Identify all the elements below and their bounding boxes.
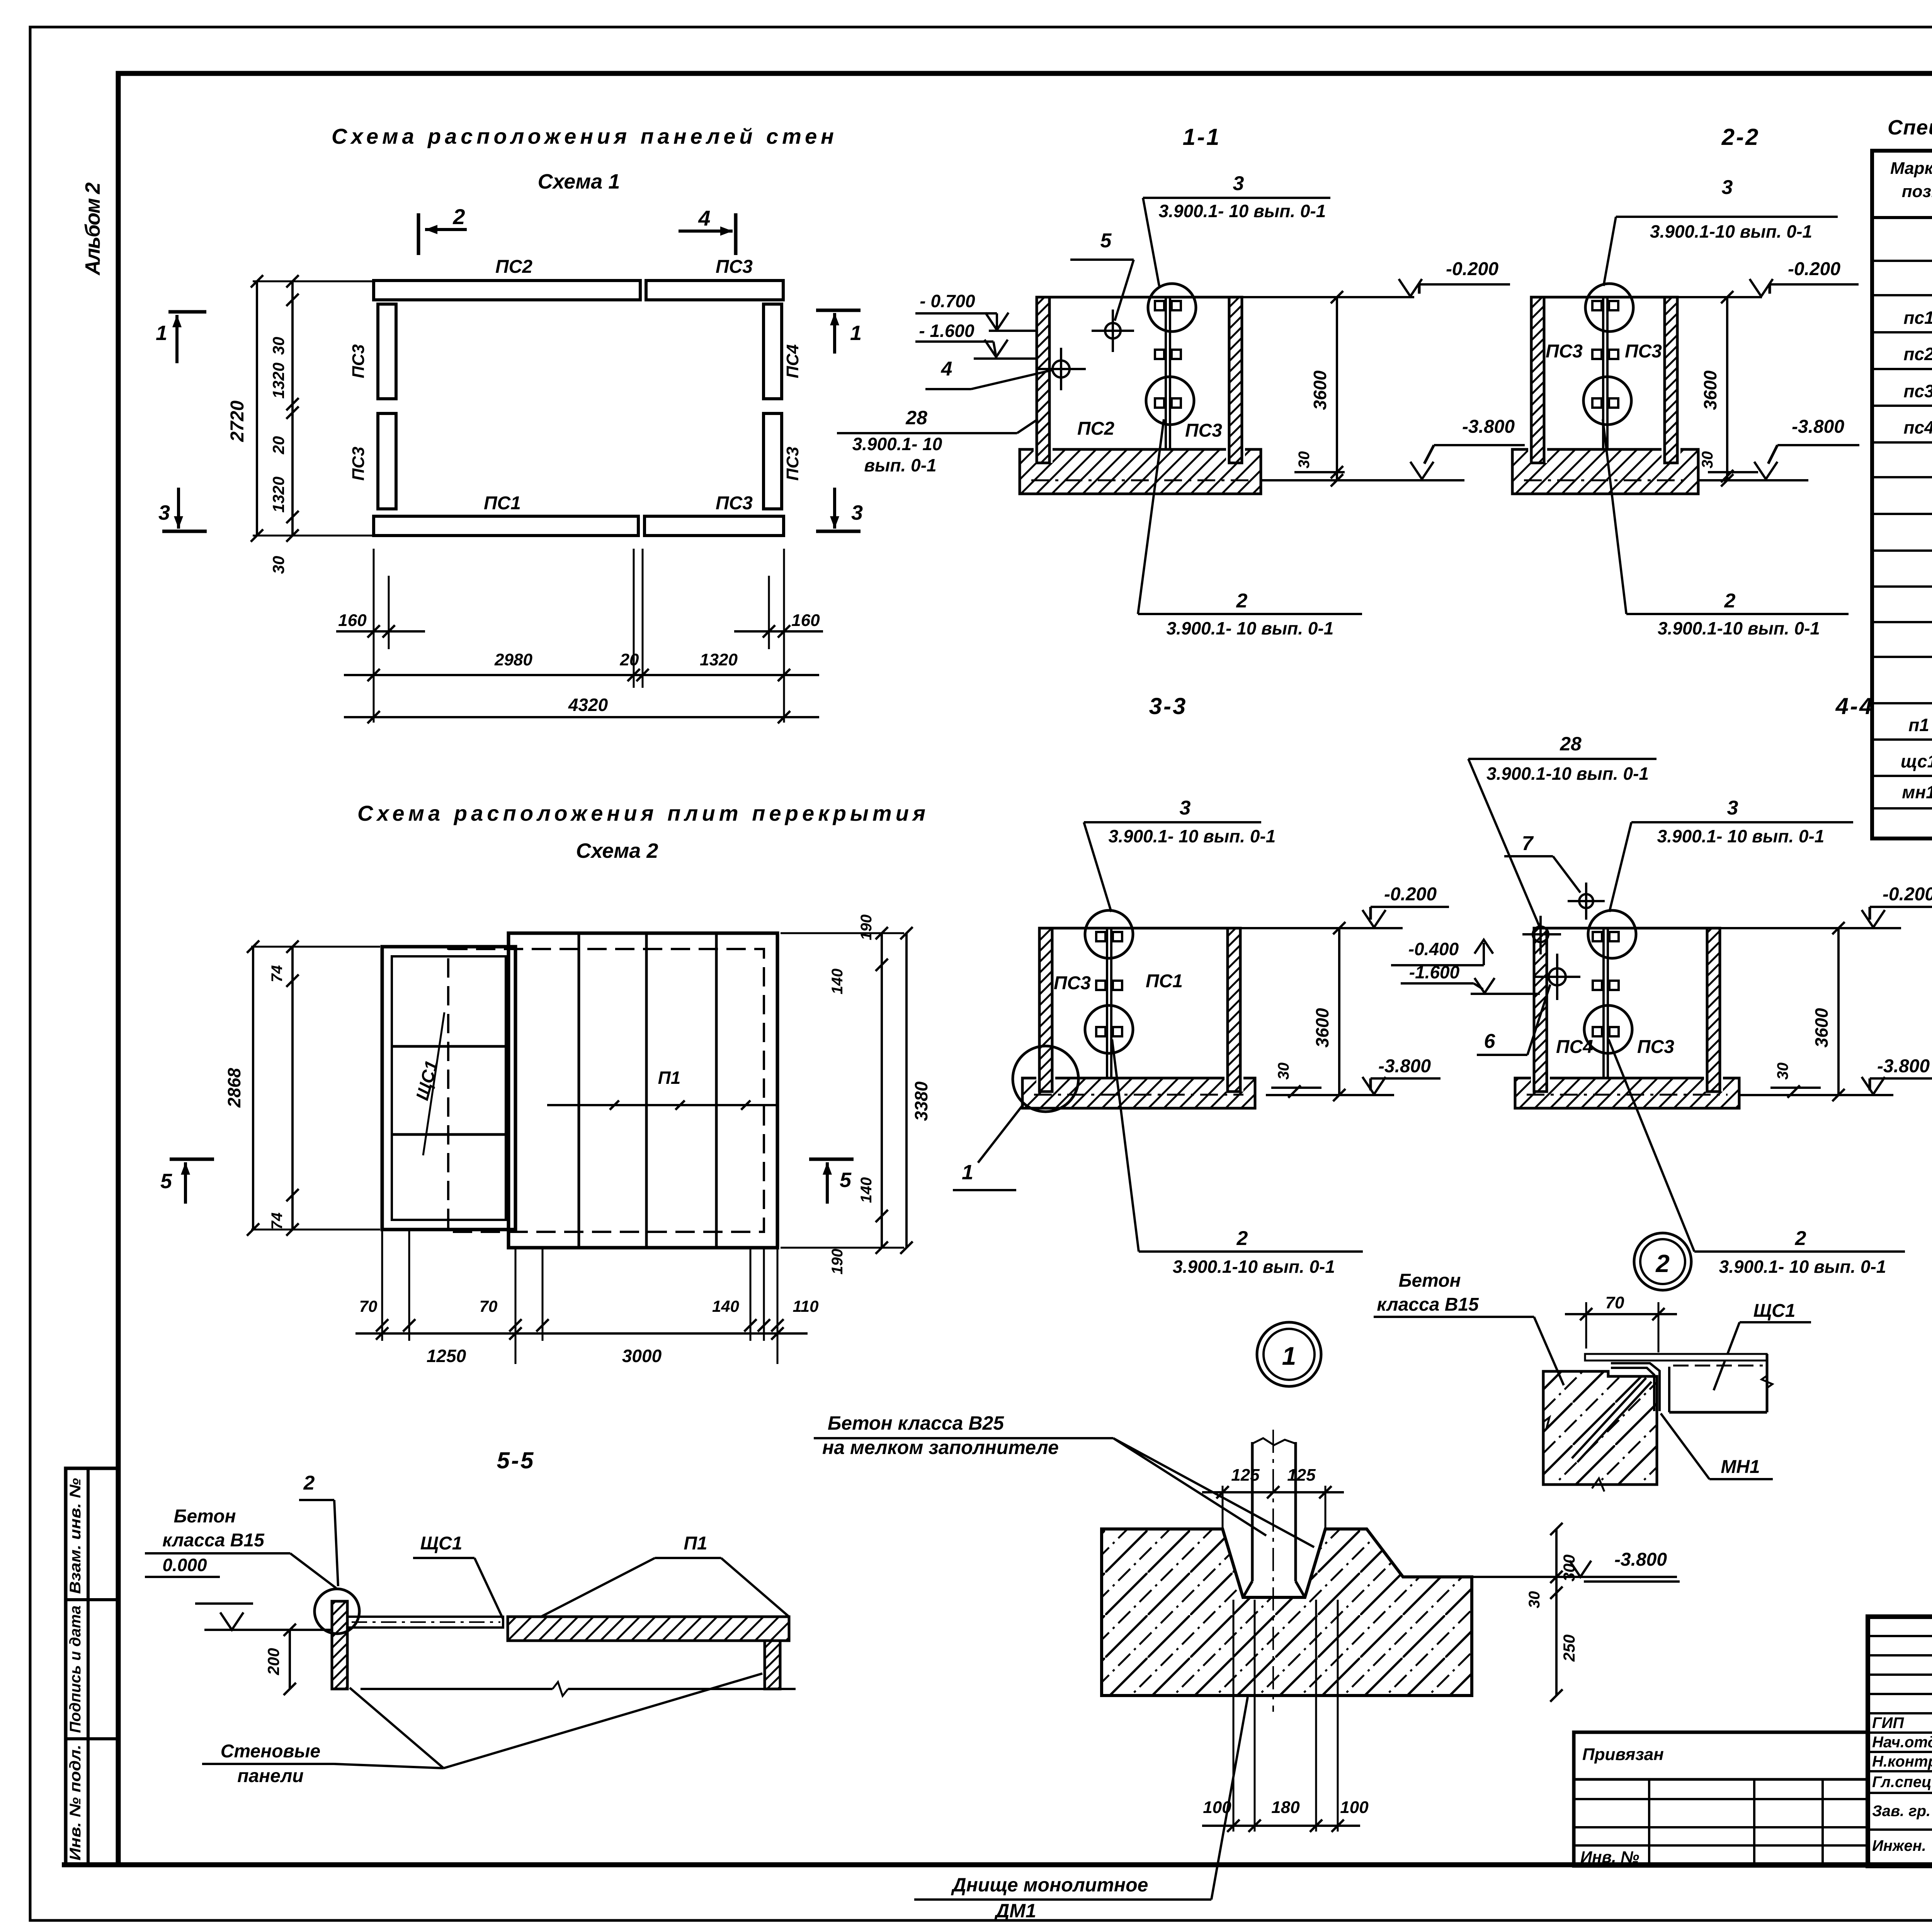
svg-text:ПС3: ПС3 [783, 447, 802, 481]
title block left rows [1868, 1635, 1932, 1637]
svg-text:мн1: мн1 [1902, 782, 1932, 802]
5-5 plate ЩС1 [347, 1617, 503, 1628]
svg-text:4-4: 4-4 [1835, 693, 1874, 719]
svg-text:3: 3 [1722, 176, 1733, 199]
svg-text:5: 5 [840, 1168, 852, 1192]
schema2 plate field П1 [509, 933, 777, 1248]
section 3-3 dim 30 [1271, 1087, 1321, 1089]
panel ПС3 top right [646, 281, 783, 300]
section 4-4 left wall [1531, 928, 1550, 1092]
svg-text:Схема 1: Схема 1 [538, 170, 620, 193]
svg-text:20: 20 [620, 650, 639, 669]
svg-text:Днище монолитное: Днище монолитное [951, 1874, 1148, 1896]
section 2-2 joint plates [1592, 301, 1602, 310]
schema2 dim left 74 chain [291, 947, 294, 1230]
section 2-2 level -0.200 [1677, 296, 1762, 298]
section 3-3 floor slab [1022, 1078, 1255, 1108]
svg-text:-3.800: -3.800 [1462, 417, 1515, 437]
section 3-3 top edge line [1039, 927, 1240, 930]
svg-text:30: 30 [1296, 451, 1313, 469]
detail 1 pit edges hatch cover [1243, 1596, 1305, 1599]
plan bottom dim 2980-20-1320 [633, 549, 635, 688]
section 3-3 detail circle 1 big [1013, 1046, 1078, 1112]
svg-text:3.900.1- 10 вып. 0-1: 3.900.1- 10 вып. 0-1 [1159, 201, 1326, 221]
section 3-3 slab interior line [1034, 1094, 1243, 1096]
svg-text:ПС3: ПС3 [349, 344, 368, 378]
plan left dim 2720 [253, 281, 372, 282]
5-5 wall left [332, 1601, 347, 1689]
panel ПС2 top [374, 281, 640, 300]
5-5 floor line [204, 1629, 332, 1631]
panel ПС4 right upper [764, 304, 782, 399]
svg-text:Подпись и дата: Подпись и дата [67, 1605, 84, 1733]
svg-text:7: 7 [1522, 832, 1534, 855]
svg-text:1: 1 [962, 1161, 973, 1184]
section 2-2 top edge line [1531, 296, 1677, 299]
section 4-4 crosshair joint top [1579, 894, 1593, 908]
section 2-2 dim 3600 [1726, 297, 1728, 480]
schema2 bottom dims 70 70 140 110 [381, 1230, 383, 1341]
svg-text:- 0.700: - 0.700 [920, 291, 975, 311]
svg-text:30: 30 [1275, 1063, 1292, 1080]
svg-text:2980: 2980 [494, 650, 532, 669]
svg-text:180: 180 [1271, 1798, 1300, 1817]
section mark 1 right [816, 309, 861, 312]
section 3-3 detail circle upper [1085, 910, 1133, 958]
svg-text:2: 2 [1724, 590, 1736, 612]
schema2 plate joints [578, 933, 580, 1248]
svg-text:-3.800: -3.800 [1378, 1056, 1431, 1077]
svg-text:ПС3: ПС3 [1185, 420, 1222, 441]
svg-text:Нач.отд.: Нач.отд. [1872, 1734, 1932, 1751]
section 2-2 level -3.800 [1698, 479, 1808, 481]
section 1-1 level -0.200 [1242, 296, 1414, 298]
svg-text:ПС4: ПС4 [783, 344, 802, 378]
section 1-1 level -3.800 [1261, 479, 1464, 481]
section 2-2 dim 30 [1708, 471, 1758, 473]
svg-text:-0.200: -0.200 [1384, 884, 1437, 905]
panel ПС3 left lower [378, 413, 396, 509]
svg-text:3: 3 [158, 501, 170, 524]
left margin stamp box [66, 1468, 118, 1865]
svg-text:2-2: 2-2 [1721, 124, 1760, 150]
svg-text:3.900.1-10 вып. 0-1: 3.900.1-10 вып. 0-1 [1650, 221, 1812, 241]
section 4-4 level -0.200 [1720, 927, 1901, 929]
section 2-2 left wall [1528, 297, 1547, 463]
detail bubble 1 [1257, 1322, 1321, 1386]
panel ПС3 bottom right [645, 516, 784, 536]
svg-text:ПС3: ПС3 [1054, 973, 1091, 993]
svg-text:3600: 3600 [1700, 370, 1720, 410]
section mark 1 left [168, 310, 206, 314]
detail 1 dim 125 125 [1222, 1486, 1224, 1531]
section mark 3 right [816, 530, 861, 533]
svg-text:250: 250 [1560, 1634, 1578, 1662]
section mark 4 top [734, 213, 738, 255]
svg-text:пс4: пс4 [1903, 417, 1932, 437]
spec table header row line [1872, 216, 1932, 219]
section 4-4 top edge line [1534, 927, 1720, 930]
svg-text:3000: 3000 [622, 1346, 662, 1366]
svg-text:-3.800: -3.800 [1792, 417, 1844, 437]
section 3-3 right wall [1225, 928, 1243, 1092]
section 4-4 level -3.800 [1739, 1094, 1893, 1096]
svg-text:3.900.1-10 вып. 0-1: 3.900.1-10 вып. 0-1 [1486, 764, 1649, 784]
plan bottom dim 160 left [373, 549, 375, 723]
svg-text:П1: П1 [658, 1068, 681, 1088]
detail 2 panel frame box [1668, 1367, 1670, 1412]
svg-text:Инв. №: Инв. № [1580, 1848, 1639, 1866]
detail 1 pit pedestal [1251, 1442, 1254, 1581]
detail 2 anchor bar [1577, 1382, 1651, 1462]
svg-text:1320: 1320 [269, 476, 287, 512]
svg-text:2: 2 [1236, 590, 1248, 612]
section 1-1 detail circle lower [1146, 377, 1194, 425]
svg-text:- 1.600: - 1.600 [919, 321, 975, 341]
section 4-4 dim 30 [1770, 1087, 1821, 1089]
svg-text:Н.контр.: Н.контр. [1872, 1753, 1932, 1770]
svg-text:ПС2: ПС2 [1077, 418, 1114, 439]
schema2 ЩС1 dividers [392, 1045, 506, 1048]
svg-text:5-5: 5-5 [497, 1447, 535, 1473]
plan left dim chain 30-1320-20-1320-30 [291, 281, 294, 536]
detail 1 right dims 30 300 250 [1555, 1529, 1558, 1696]
section 2-2 panel joint [1602, 297, 1604, 449]
schema2 dim right chain 190-140 [881, 933, 883, 1248]
svg-text:Бетон класса В25: Бетон класса В25 [828, 1412, 1004, 1434]
detail 1 pedestal centerline [1272, 1430, 1274, 1712]
svg-text:3600: 3600 [1310, 370, 1330, 410]
svg-text:1-1: 1-1 [1183, 124, 1221, 150]
svg-text:5: 5 [160, 1170, 172, 1193]
section 4-4 detail circle upper [1588, 910, 1636, 958]
detail 1 dim 100 180 100 [1233, 1600, 1235, 1832]
section 1-1 dim 30 [1294, 471, 1345, 473]
svg-text:3.900.1- 10 вып. 0-1: 3.900.1- 10 вып. 0-1 [1719, 1257, 1886, 1277]
svg-text:класса В15: класса В15 [162, 1530, 265, 1551]
svg-text:125: 125 [1231, 1466, 1260, 1485]
svg-text:-3.800: -3.800 [1877, 1056, 1930, 1077]
svg-text:пс3: пс3 [1903, 381, 1932, 401]
svg-text:Марка,: Марка, [1890, 159, 1932, 178]
svg-text:пс2: пс2 [1903, 344, 1932, 364]
svg-text:ПС3: ПС3 [716, 257, 753, 277]
section 4-4 detail circle lower [1584, 1005, 1632, 1053]
svg-text:125: 125 [1287, 1466, 1316, 1485]
svg-text:30: 30 [1774, 1063, 1791, 1080]
section 3-3 detail circle lower [1085, 1005, 1133, 1053]
5-5 slab П1 [508, 1617, 789, 1641]
svg-text:-0.400: -0.400 [1408, 939, 1459, 959]
privyazan box [1574, 1732, 1868, 1866]
svg-text:3.900.1- 10: 3.900.1- 10 [852, 434, 942, 454]
svg-text:30: 30 [269, 556, 287, 574]
svg-text:ПС3: ПС3 [1637, 1037, 1674, 1057]
section 1-1 detail circle upper [1148, 284, 1196, 332]
svg-text:200: 200 [264, 1648, 282, 1675]
svg-text:1320: 1320 [700, 650, 738, 669]
section 4-4 dim 3600 [1837, 928, 1840, 1095]
svg-text:6: 6 [1484, 1030, 1496, 1053]
svg-text:20: 20 [269, 436, 287, 455]
svg-text:140: 140 [858, 1177, 875, 1203]
section 2-2 detail circle lower [1583, 377, 1631, 425]
detail 1 foundation outline [1102, 1529, 1472, 1696]
svg-text:2: 2 [1795, 1227, 1806, 1250]
svg-text:ПС4: ПС4 [1556, 1037, 1593, 1057]
spec table frame [1872, 151, 1932, 838]
svg-text:Зав. гр.: Зав. гр. [1872, 1803, 1930, 1820]
svg-text:П1: П1 [684, 1533, 707, 1554]
title block frame [1868, 1617, 1932, 1866]
section 2-2 right wall [1662, 297, 1680, 463]
5-5 dim 200 [289, 1630, 291, 1689]
section 4-4 crosshair wall top [1533, 927, 1548, 942]
svg-text:Привязан: Привязан [1582, 1745, 1664, 1764]
svg-text:0.000: 0.000 [162, 1555, 207, 1575]
svg-text:Схема расположения панелей сте: Схема расположения панелей стен [332, 124, 834, 148]
svg-text:ПС2: ПС2 [495, 257, 532, 277]
section 4-4 right wall [1704, 928, 1723, 1092]
svg-text:ПС3: ПС3 [349, 447, 368, 481]
section 1-1 crosshair 4 [1053, 361, 1070, 378]
detail 2 plate ЩС1 [1585, 1354, 1767, 1361]
svg-text:110: 110 [793, 1297, 819, 1315]
svg-text:-3.800: -3.800 [1614, 1549, 1667, 1570]
section mark 3 left [162, 530, 207, 533]
section 1-1 top edge line [1037, 296, 1242, 299]
svg-text:4320: 4320 [568, 695, 608, 715]
plan bottom dim 4320 [344, 716, 819, 718]
svg-text:3.900.1- 10 вып. 0-1: 3.900.1- 10 вып. 0-1 [1109, 826, 1276, 846]
svg-text:щс1: щс1 [1901, 751, 1932, 771]
svg-text:2: 2 [452, 204, 465, 229]
svg-text:панели: панели [237, 1766, 303, 1786]
svg-text:74: 74 [269, 965, 286, 983]
section 4-4 crosshair -1.600 [1549, 968, 1566, 985]
panel ПС3 left upper [378, 304, 396, 399]
section 2-2 detail circle upper [1585, 284, 1633, 332]
inner frame bottom [62, 1862, 1932, 1867]
svg-text:1: 1 [1282, 1342, 1296, 1370]
svg-text:класса В15: класса В15 [1377, 1294, 1479, 1315]
5-5 wall right [765, 1641, 780, 1689]
5-5 bottom line [361, 1688, 553, 1690]
svg-text:МН1: МН1 [1721, 1457, 1760, 1477]
svg-text:3-3: 3-3 [1149, 693, 1187, 719]
svg-text:4: 4 [698, 206, 710, 230]
section mark 2 top [417, 213, 420, 255]
svg-text:ПС1: ПС1 [484, 493, 521, 514]
svg-text:ПС3: ПС3 [1546, 341, 1583, 362]
section 3-3 panel joint [1106, 928, 1108, 1078]
schema2 dashed inner rect [448, 949, 764, 1232]
svg-text:3600: 3600 [1312, 1008, 1332, 1048]
svg-text:ГИП: ГИП [1872, 1714, 1904, 1731]
schema2 dim right 3380 [781, 932, 904, 934]
5-5 corner circle [315, 1589, 359, 1634]
svg-text:3600: 3600 [1811, 1008, 1832, 1048]
svg-text:70: 70 [359, 1297, 378, 1315]
svg-text:п1: п1 [1908, 715, 1929, 735]
spec table row lines [1872, 260, 1932, 262]
section 3-3 level -3.800 [1266, 1094, 1394, 1096]
section 1-1 crosshair 5 [1105, 323, 1121, 338]
schema2 section mark 5 left [170, 1158, 214, 1161]
section 4-4 joint plates [1593, 932, 1602, 941]
svg-text:Инжен.: Инжен. [1872, 1837, 1926, 1854]
svg-text:3.900.1- 10 вып. 0-1: 3.900.1- 10 вып. 0-1 [1657, 826, 1825, 846]
svg-text:30: 30 [1699, 451, 1716, 469]
svg-text:2: 2 [303, 1472, 315, 1494]
section 2-2 slab interior line [1524, 480, 1687, 481]
schema2 bottom dim 1250 3000 [355, 1332, 808, 1335]
svg-text:2: 2 [1655, 1250, 1670, 1277]
svg-text:1250: 1250 [427, 1346, 466, 1366]
svg-text:2720: 2720 [227, 400, 248, 442]
detail 2 concrete block [1543, 1371, 1657, 1485]
svg-text:1: 1 [850, 321, 862, 345]
plan bottom dim 160 right [768, 576, 770, 649]
svg-text:3: 3 [1727, 797, 1738, 819]
svg-text:160: 160 [791, 611, 820, 630]
svg-text:140: 140 [712, 1297, 739, 1315]
schema2 ЩС1 panel outer [382, 947, 515, 1230]
svg-text:Стеновые: Стеновые [221, 1741, 320, 1762]
schema2 dim left 2868 [251, 946, 380, 948]
svg-text:28: 28 [905, 407, 927, 429]
section 4-4 panel joint [1602, 928, 1605, 1078]
section 1-1 dim 3600 [1336, 297, 1338, 480]
svg-text:70: 70 [480, 1297, 498, 1315]
svg-text:ПС1: ПС1 [1146, 971, 1183, 992]
svg-text:Схема 2: Схема 2 [576, 839, 658, 862]
svg-text:Бетон: Бетон [173, 1506, 236, 1527]
svg-text:ЩС1: ЩС1 [1753, 1301, 1796, 1321]
schema2 section mark 5 right [809, 1158, 854, 1161]
svg-text:74: 74 [269, 1213, 286, 1230]
section 1-1 right wall [1226, 297, 1245, 463]
detail 2 break marks [1543, 1417, 1553, 1427]
svg-text:4: 4 [941, 358, 952, 380]
section 2-2 floor slab [1512, 449, 1698, 494]
section 1-1 left wall [1034, 297, 1053, 463]
svg-text:30: 30 [1526, 1591, 1543, 1609]
schema2 ЩС1 panel inner [392, 956, 506, 1220]
section 3-3 dim 3600 [1338, 928, 1340, 1095]
svg-text:вып. 0-1: вып. 0-1 [864, 455, 936, 475]
svg-text:Бетон: Бетон [1398, 1270, 1461, 1291]
svg-text:1320: 1320 [269, 362, 287, 398]
detail 2 bubble [1634, 1233, 1691, 1290]
svg-text:160: 160 [338, 611, 367, 630]
svg-text:Инв. № подл.: Инв. № подл. [67, 1745, 84, 1861]
panel ПС3 right lower [764, 413, 782, 509]
svg-text:ПС3: ПС3 [716, 493, 753, 514]
svg-text:3.900.1-10 вып. 0-1: 3.900.1-10 вып. 0-1 [1658, 618, 1820, 638]
svg-text:Взам. инв. №: Взам. инв. № [67, 1478, 84, 1594]
detail 2 angle МН1 [1611, 1363, 1660, 1411]
section 3-3 level -0.200 [1240, 927, 1403, 929]
section 4-4 slab interior line [1527, 1094, 1728, 1096]
section 1-1 panel joint [1165, 297, 1167, 449]
svg-text:Гл.спец.: Гл.спец. [1872, 1774, 1932, 1791]
svg-text:28: 28 [1560, 733, 1582, 755]
section 1-1 slab interior line [1031, 480, 1249, 481]
section 3-3 left wall [1036, 928, 1055, 1092]
svg-text:-1.600: -1.600 [1409, 962, 1460, 982]
svg-text:5: 5 [1100, 230, 1112, 252]
svg-text:-0.200: -0.200 [1883, 884, 1932, 905]
svg-text:100: 100 [1340, 1798, 1369, 1817]
svg-text:Альбом 2: Альбом 2 [81, 182, 104, 276]
detail 1 level -3.800 [1472, 1576, 1677, 1578]
svg-text:3: 3 [851, 501, 863, 524]
svg-text:на мелком заполнителе: на мелком заполнителе [822, 1437, 1059, 1458]
svg-text:3: 3 [1233, 172, 1244, 195]
svg-text:190: 190 [829, 1249, 846, 1275]
svg-text:поз.: поз. [1902, 182, 1932, 201]
svg-text:Спецификация к схемам распол: Спецификация к схемам расположения панел… [1888, 116, 1932, 139]
svg-text:140: 140 [829, 969, 846, 995]
svg-text:3.900.1-10 вып. 0-1: 3.900.1-10 вып. 0-1 [1173, 1257, 1335, 1277]
section 1-1 joint plates [1155, 301, 1164, 310]
svg-text:пс1: пс1 [1903, 308, 1932, 328]
section 1-1 floor slab [1020, 449, 1261, 494]
svg-text:2: 2 [1236, 1227, 1248, 1250]
panel ПС1 bottom [374, 516, 638, 536]
svg-text:70: 70 [1605, 1293, 1624, 1312]
svg-text:ЩС1: ЩС1 [420, 1533, 463, 1554]
svg-text:1: 1 [156, 321, 167, 345]
svg-text:-0.200: -0.200 [1446, 259, 1498, 279]
section 3-3 joint plates [1096, 932, 1105, 941]
svg-text:3.900.1- 10 вып. 0-1: 3.900.1- 10 вып. 0-1 [1167, 618, 1334, 638]
svg-text:3: 3 [1180, 797, 1191, 819]
svg-text:ДМ1: ДМ1 [994, 1900, 1036, 1922]
svg-text:ПС3: ПС3 [1625, 341, 1662, 362]
svg-text:-0.200: -0.200 [1788, 259, 1840, 279]
svg-text:2868: 2868 [224, 1068, 244, 1108]
section 4-4 floor slab [1515, 1078, 1739, 1108]
svg-text:190: 190 [858, 915, 875, 940]
svg-text:3380: 3380 [911, 1081, 931, 1121]
svg-text:30: 30 [269, 337, 287, 355]
